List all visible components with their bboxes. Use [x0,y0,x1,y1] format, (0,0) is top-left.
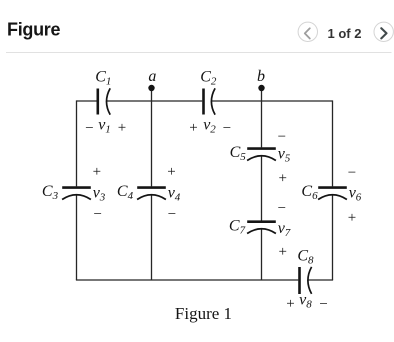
wire left branch upper [76,100,78,186]
svg-text:−: − [319,296,327,312]
wire left branch lower [76,195,78,280]
svg-text:v6: v6 [349,185,362,204]
capacitor C6 [318,188,347,200]
wire top middle segment [107,100,202,102]
svg-text:+: + [278,170,286,186]
capacitor C1 [98,88,110,114]
svg-text:Figure: Figure [7,19,60,39]
svg-text:v2: v2 [203,117,216,136]
svg-text:C2: C2 [200,69,217,88]
svg-text:+: + [278,244,286,260]
svg-text:v3: v3 [93,185,106,204]
capacitor C5 [247,149,276,161]
svg-text:v8: v8 [299,292,312,311]
svg-text:C5: C5 [230,144,247,163]
wire node a stub and branch upper [151,88,153,186]
svg-text:+: + [189,120,197,136]
node a junction dot [148,85,154,91]
pager next button [374,22,393,41]
svg-text:C7: C7 [229,218,246,237]
svg-text:+: + [167,164,175,180]
svg-text:C8: C8 [297,248,314,267]
capacitor C4 [137,188,166,200]
svg-text:1 of 2: 1 of 2 [328,26,362,41]
capacitor C3 [62,188,91,200]
wire right branch lower [332,195,334,280]
node b junction dot [258,85,264,91]
svg-text:C6: C6 [301,183,318,202]
wire node b stub and branch upper [261,88,263,147]
wire bottom left segment [76,279,298,281]
svg-text:−: − [168,206,176,222]
wire branch b middle [261,156,263,221]
svg-text:+: + [348,210,356,226]
svg-text:−: − [278,129,286,145]
svg-text:a: a [148,68,156,85]
svg-text:+: + [286,296,294,312]
wire branch a lower [151,195,153,280]
capacitor C2 [204,88,216,114]
capacitor C7 [247,222,276,234]
svg-text:v7: v7 [278,220,291,239]
svg-text:−: − [223,121,231,137]
svg-text:v4: v4 [168,185,181,204]
svg-text:−: − [93,206,101,222]
svg-text:C4: C4 [117,183,134,202]
svg-text:−: − [85,121,93,137]
wire bottom right segment [308,279,333,281]
svg-text:−: − [278,200,286,216]
wire top left segment [77,100,97,102]
svg-text:Figure 1: Figure 1 [175,304,232,323]
wire branch b lower [261,229,263,280]
svg-text:−: − [348,165,356,181]
svg-text:C3: C3 [42,183,59,202]
svg-text:v5: v5 [278,146,291,165]
svg-text:v1: v1 [98,117,111,136]
pager prev button [298,22,317,41]
svg-text:C1: C1 [95,69,111,88]
svg-text:+: + [93,164,101,180]
wire top right segment [212,100,333,102]
header separator [6,52,392,54]
svg-text:+: + [118,120,126,136]
capacitor C8 [300,267,312,294]
wire right branch upper [332,100,334,186]
svg-text:b: b [257,68,265,85]
